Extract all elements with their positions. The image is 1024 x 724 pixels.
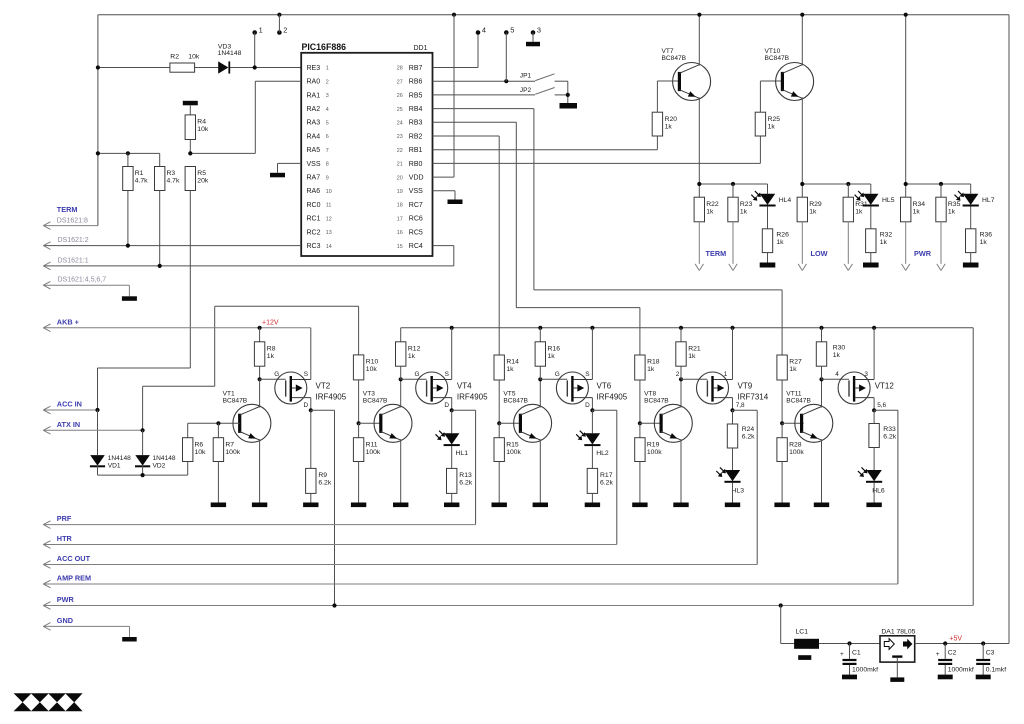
svg-text:6.2k: 6.2k	[742, 434, 755, 441]
wire PWR LED rail	[906, 183, 971, 185]
svg-text:1k: 1k	[506, 366, 514, 373]
node junction VT4 source	[450, 326, 454, 330]
svg-text:24: 24	[397, 121, 403, 127]
resistor R6	[187, 423, 189, 437]
svg-text:IRF7314: IRF7314	[738, 392, 769, 401]
svg-text:HL1: HL1	[456, 450, 469, 457]
svg-text:4: 4	[835, 371, 839, 378]
svg-text:DS1621:4,5,6,7: DS1621:4,5,6,7	[58, 277, 107, 284]
svg-text:1k: 1k	[980, 239, 988, 246]
svg-text:LOW: LOW	[811, 249, 828, 258]
svg-text:RA6: RA6	[307, 188, 321, 195]
wire VT6 drain to HTR line	[592, 409, 616, 411]
svg-text:VSS: VSS	[409, 188, 423, 195]
svg-text:S: S	[304, 371, 308, 378]
wire RC4 to DS1621:1 line	[433, 245, 454, 247]
resistor R4	[189, 105, 191, 115]
svg-text:13: 13	[326, 230, 332, 236]
svg-text:JP1: JP1	[520, 73, 532, 80]
resistor R19	[639, 423, 641, 437]
svg-text:7,8: 7,8	[736, 402, 745, 409]
resistor R23	[732, 184, 734, 197]
resistor R25	[755, 112, 765, 136]
svg-text:RC1: RC1	[307, 216, 321, 223]
node junction top-rail / VT7	[697, 13, 701, 17]
svg-text:RB3: RB3	[409, 120, 423, 127]
node junction node1 / RE3 line	[253, 65, 257, 69]
wire VT5 emitter to ground	[539, 439, 541, 502]
svg-text:RC6: RC6	[409, 216, 423, 223]
wire VT11 base	[782, 422, 804, 424]
wire R31 output arrow	[847, 222, 849, 264]
resistor R2	[170, 63, 195, 72]
wire VT1 collector	[259, 379, 261, 407]
wire R28 to ground	[781, 462, 783, 503]
svg-text:1k: 1k	[548, 353, 556, 360]
resistor R33	[873, 410, 875, 423]
ground R32	[863, 263, 879, 268]
resistor R34	[901, 197, 911, 222]
svg-text:R11: R11	[366, 441, 378, 448]
wire left +5V vertical	[97, 15, 99, 226]
wire R21 to gate node	[680, 366, 682, 379]
resistor R5	[185, 167, 195, 191]
node junction R8 / +12V	[258, 326, 262, 330]
resistor R15	[498, 423, 500, 437]
resistor R27	[777, 355, 787, 380]
resistor R22	[694, 197, 704, 222]
wire +5V to PWR LED rail	[905, 15, 907, 198]
node junction VT4 gate	[399, 377, 403, 381]
svg-text:4: 4	[326, 107, 329, 113]
svg-text:HTR: HTR	[57, 534, 73, 543]
svg-text:R24: R24	[742, 426, 755, 433]
node junction VT2 drain	[309, 408, 313, 412]
wire VSS pin19 to ground	[433, 190, 455, 192]
svg-text:RA3: RA3	[307, 120, 321, 127]
wire R3 bottom to DS1621:1 line	[159, 191, 161, 266]
svg-text:1N4148: 1N4148	[153, 455, 176, 462]
wire +5V riser to top rail	[1008, 15, 1010, 644]
wire TERM LED rail	[699, 183, 767, 185]
wire RB2 to R14	[433, 135, 500, 137]
wire diode common cathodes to R6	[97, 466, 99, 476]
svg-text:R34: R34	[913, 201, 926, 208]
LED HL1	[451, 410, 453, 433]
svg-text:R16: R16	[548, 345, 561, 352]
wire VT11 collector	[821, 379, 823, 407]
resistor R13	[447, 468, 457, 493]
svg-text:HL3: HL3	[732, 488, 745, 495]
svg-text:R18: R18	[647, 359, 660, 366]
wire RC3 to DS1621:2 line	[43, 245, 301, 247]
resistor R8	[259, 328, 261, 342]
svg-text:HL7: HL7	[982, 197, 995, 204]
resistor R26	[762, 229, 772, 253]
svg-text:100k: 100k	[789, 449, 804, 456]
wire RB6 to JP1	[433, 80, 535, 82]
svg-text:R17: R17	[600, 472, 613, 479]
ground R7	[211, 503, 226, 508]
ground R15	[492, 503, 507, 508]
svg-text:RB5: RB5	[409, 92, 423, 99]
wire R20 top to VT7 base	[656, 81, 658, 112]
node junction PWR / stage1 drain	[332, 603, 336, 607]
node junction R21 top	[679, 326, 683, 330]
svg-text:1: 1	[259, 25, 263, 34]
svg-text:6.2k: 6.2k	[600, 480, 613, 487]
resistor R21	[680, 328, 682, 342]
node junction node5 / RB6	[504, 79, 508, 83]
wire R23 output arrow	[732, 222, 734, 264]
svg-text:RA2: RA2	[307, 106, 321, 113]
wire VT3 emitter to ground	[400, 439, 402, 502]
node junction VT4 drain	[450, 408, 454, 412]
diode VD2 1N4148	[142, 430, 144, 455]
svg-text:PRF: PRF	[57, 514, 72, 523]
ground R19	[632, 503, 647, 508]
svg-text:5,6: 5,6	[877, 402, 886, 409]
node junction top-rail / VDD	[452, 13, 456, 17]
svg-text:IRF4905: IRF4905	[597, 392, 628, 401]
svg-text:9: 9	[326, 175, 329, 181]
ground DS1621:4,5,6,7	[122, 296, 137, 301]
resistor R11	[358, 423, 360, 437]
node junction PWR / supply feed	[779, 603, 783, 607]
wire R27 to VT11 base	[781, 380, 783, 423]
wire R7 to ground	[217, 462, 219, 503]
svg-text:C2: C2	[948, 650, 957, 657]
svg-text:AMP REM: AMP REM	[57, 574, 91, 583]
svg-text:R1: R1	[135, 170, 144, 177]
svg-text:R5: R5	[197, 170, 206, 177]
svg-text:R12: R12	[408, 345, 421, 352]
resistor R16	[539, 328, 541, 342]
wire switched rail to PWR line	[972, 328, 974, 606]
svg-text:VT2: VT2	[316, 382, 331, 391]
wire VT3 base	[359, 422, 381, 424]
svg-text:VT12: VT12	[875, 382, 895, 391]
svg-text:RB7: RB7	[409, 65, 423, 72]
svg-text:R14: R14	[506, 359, 519, 366]
svg-text:IRF4905: IRF4905	[316, 392, 347, 401]
svg-text:HL5: HL5	[882, 197, 895, 204]
node junction C1	[847, 641, 851, 645]
svg-text:R27: R27	[789, 359, 802, 366]
svg-text:+: +	[840, 651, 844, 658]
svg-text:BC847B: BC847B	[786, 397, 811, 404]
wire VT9 drain to ACC OUT line	[733, 409, 758, 411]
ground R17	[585, 503, 600, 508]
svg-text:HL4: HL4	[779, 197, 792, 204]
svg-text:100k: 100k	[366, 449, 381, 456]
node junction R7 top	[216, 421, 220, 425]
wire LOW LED rail	[802, 183, 871, 185]
svg-text:1N4148: 1N4148	[218, 50, 242, 57]
wire R9 to ground	[310, 493, 312, 502]
svg-text:R8: R8	[267, 345, 276, 352]
node junction VT12 drain	[872, 408, 876, 412]
resistor R28	[781, 423, 783, 437]
ground VT8 emitter	[673, 503, 688, 508]
svg-text:R32: R32	[880, 232, 893, 239]
node junction rail/R29	[800, 182, 804, 186]
svg-text:15: 15	[397, 244, 403, 250]
wire VT4 source to rail	[451, 328, 453, 380]
svg-text:R4: R4	[197, 119, 206, 126]
wire +5V top rail	[98, 14, 1009, 16]
resistor R18	[635, 355, 645, 380]
svg-text:G: G	[555, 371, 560, 378]
node junction left-vert / R1 net	[96, 151, 100, 155]
wire R26 to ground	[767, 253, 769, 263]
wire R6 to diode common	[187, 462, 189, 476]
svg-text:R13: R13	[459, 472, 472, 479]
svg-text:4.7k: 4.7k	[135, 178, 148, 185]
svg-text:3: 3	[537, 25, 541, 34]
node junction VT8 base	[638, 421, 642, 425]
resistor R10	[353, 355, 363, 380]
svg-text:LC1: LC1	[796, 628, 809, 635]
resistor R29	[797, 197, 807, 222]
LED HL5	[870, 184, 872, 194]
svg-text:RB1: RB1	[409, 147, 423, 154]
node 1 programming pin	[252, 30, 257, 35]
svg-text:GND: GND	[57, 616, 73, 625]
power bar +5V above R4	[183, 101, 198, 106]
svg-text:7: 7	[326, 148, 329, 154]
node junction top-rail / PWR group	[904, 13, 908, 17]
wire HL7 to R36	[970, 206, 972, 229]
ground VSS pin8	[270, 173, 285, 178]
resistor R17	[587, 468, 597, 493]
resistor R24	[732, 410, 734, 424]
wire VT11 emitter to ground	[821, 439, 823, 502]
ground R13	[444, 503, 459, 508]
node junction VT9 source	[730, 326, 734, 330]
svg-text:10k: 10k	[197, 126, 209, 133]
ground R26	[760, 263, 776, 268]
svg-text:BC847B: BC847B	[503, 397, 528, 404]
svg-text:5: 5	[510, 25, 514, 34]
svg-text:11: 11	[326, 203, 332, 209]
wire VT2 drain node	[310, 398, 312, 411]
node junction VT6 gate	[538, 377, 542, 381]
svg-text:1k: 1k	[809, 208, 817, 215]
svg-text:+: +	[936, 651, 940, 658]
svg-text:S: S	[585, 371, 589, 378]
svg-text:1000mkf: 1000mkf	[852, 667, 878, 674]
wire HL5 to R32	[870, 206, 872, 229]
wire RA0 net R4-R5-RA0	[190, 152, 255, 154]
wire gate node to VT6	[540, 378, 567, 380]
wire +12V switched rail	[401, 327, 974, 329]
wire ATX rail to R10	[215, 305, 359, 307]
svg-text:2: 2	[283, 25, 287, 34]
node junction VT5 base	[497, 421, 501, 425]
resistor R35	[940, 184, 942, 197]
wire R22 output arrow	[698, 222, 700, 264]
wire VT10 emitter to LOW LED rail	[801, 97, 803, 197]
svg-text:10k: 10k	[188, 54, 200, 61]
ground VT11 emitter	[814, 503, 829, 508]
svg-text:21: 21	[397, 162, 403, 168]
svg-text:10: 10	[326, 189, 332, 195]
svg-text:22: 22	[397, 148, 403, 154]
svg-text:1k: 1k	[688, 353, 696, 360]
wire PWR to supply input	[780, 606, 782, 644]
wire VT7 emitter to TERM LED rail	[698, 97, 700, 197]
wire R25 top to VT10 base	[759, 81, 761, 112]
node junction R1 / DS1621:2	[126, 244, 130, 248]
wire RB3 to R18	[433, 121, 517, 123]
node 3 ground pin	[531, 30, 536, 35]
svg-text:25: 25	[397, 107, 403, 113]
wire VT4 drain to PRF line	[452, 409, 476, 411]
LED HL7	[970, 184, 972, 194]
svg-text:16: 16	[397, 230, 403, 236]
diode VD1 1N4148	[97, 410, 99, 455]
LED HL6	[873, 448, 875, 471]
svg-text:18: 18	[397, 203, 403, 209]
ground R9	[303, 503, 318, 508]
wire VT12 drain node	[873, 398, 875, 411]
wire +12V into VT2 source	[310, 328, 312, 380]
wire RB1 to R20	[433, 149, 658, 151]
svg-text:TERM: TERM	[57, 205, 78, 214]
svg-text:BC847B: BC847B	[765, 55, 790, 62]
node junction top-rail / node2	[277, 13, 281, 17]
wire VT12 drain to AMP REM line	[874, 409, 898, 411]
wire R14 to VT5 base	[498, 380, 500, 423]
svg-text:RA7: RA7	[307, 175, 321, 182]
capacitor C1 1000mkf	[849, 644, 851, 659]
svg-text:4: 4	[482, 25, 486, 34]
svg-text:1k: 1k	[706, 208, 714, 215]
wire R12 to gate node	[400, 366, 402, 379]
svg-text:100k: 100k	[506, 449, 521, 456]
ground VSS pin19	[448, 200, 463, 205]
svg-text:R2: R2	[170, 54, 179, 61]
svg-text:RC3: RC3	[307, 243, 321, 250]
svg-text:R22: R22	[706, 201, 719, 208]
svg-text:AKB +: AKB +	[57, 317, 79, 326]
svg-text:R31: R31	[855, 201, 868, 208]
wire VT6 drain node	[591, 398, 593, 411]
svg-text:PIC16F886: PIC16F886	[302, 42, 347, 52]
svg-text:R29: R29	[809, 201, 822, 208]
svg-text:R33: R33	[883, 426, 896, 433]
svg-text:RB0: RB0	[409, 161, 423, 168]
svg-text:6.2k: 6.2k	[459, 480, 472, 487]
resistor R1	[127, 153, 129, 166]
diode VD3	[218, 61, 228, 73]
svg-text:IRF4905: IRF4905	[457, 392, 488, 401]
svg-text:R30: R30	[833, 344, 846, 351]
resistor R12	[396, 342, 406, 366]
svg-text:RA0: RA0	[307, 79, 321, 86]
node junction R16 top	[538, 326, 542, 330]
svg-text:5: 5	[326, 121, 329, 127]
wire R15 to ground	[498, 462, 500, 503]
svg-text:R15: R15	[506, 441, 519, 448]
wire gate node to VT9	[681, 378, 707, 380]
svg-text:RE3: RE3	[307, 65, 321, 72]
node junction R30 top	[819, 326, 823, 330]
svg-text:1k: 1k	[789, 366, 797, 373]
svg-text:23: 23	[397, 134, 403, 140]
svg-text:BC847B: BC847B	[223, 397, 248, 404]
resistor R20	[652, 112, 662, 136]
svg-text:14: 14	[326, 244, 332, 250]
svg-text:HL2: HL2	[596, 450, 609, 457]
svg-text:6.2k: 6.2k	[883, 434, 896, 441]
svg-text:R21: R21	[688, 345, 701, 352]
ground HL3	[725, 503, 740, 508]
node junction VT12 source	[872, 326, 876, 330]
svg-text:RA4: RA4	[307, 133, 321, 140]
wire HL6 to ground	[873, 483, 875, 503]
svg-text:TERM: TERM	[706, 249, 727, 258]
node junction R4/R5	[188, 151, 192, 155]
svg-text:R9: R9	[318, 472, 327, 479]
wire VT4 drain node	[451, 398, 453, 411]
svg-text:1k: 1k	[768, 123, 776, 130]
logo XXXX	[14, 693, 83, 711]
svg-text:RC4: RC4	[409, 243, 423, 250]
svg-text:8: 8	[326, 162, 329, 168]
node junction R1 top	[126, 151, 130, 155]
svg-text:RB6: RB6	[409, 79, 423, 86]
svg-text:VSS: VSS	[307, 161, 321, 168]
wire R34 output arrow	[905, 222, 907, 264]
svg-text:10k: 10k	[195, 449, 207, 456]
node junction rail/R23	[731, 182, 735, 186]
wire R5 bottom route to ACC IN	[189, 191, 191, 369]
capacitor C3 0.1mkf	[982, 644, 984, 659]
svg-text:3: 3	[326, 93, 329, 99]
node junction rail/R22	[697, 182, 701, 186]
ground R36	[963, 263, 979, 268]
ground node 3	[526, 42, 540, 47]
node junction C3	[981, 641, 985, 645]
node junction VT9 drain	[730, 408, 734, 412]
svg-text:27: 27	[397, 79, 403, 85]
wire VT5 collector	[539, 379, 541, 407]
svg-text:PWR: PWR	[57, 595, 75, 604]
svg-text:1k: 1k	[647, 366, 655, 373]
node junction VT11 base	[780, 421, 784, 425]
svg-text:R6: R6	[195, 441, 204, 448]
resistor R9	[310, 410, 312, 468]
svg-text:RC2: RC2	[307, 229, 321, 236]
wire VT3 collector	[400, 379, 402, 407]
svg-text:26: 26	[397, 93, 403, 99]
svg-text:C3: C3	[986, 650, 995, 657]
svg-text:17: 17	[397, 216, 403, 222]
wire +5V output	[915, 643, 1009, 645]
svg-text:1000mkf: 1000mkf	[948, 667, 974, 674]
node junction JP2 right contact	[566, 93, 570, 97]
wire gate node to VT2	[260, 378, 286, 380]
svg-text:RB2: RB2	[409, 133, 423, 140]
svg-text:PWR: PWR	[914, 249, 932, 258]
resistor R3	[159, 153, 161, 166]
wire VT1 base network	[188, 422, 240, 424]
svg-text:S: S	[445, 371, 449, 378]
ground R11	[351, 503, 366, 508]
node junction VT3 base	[357, 421, 361, 425]
